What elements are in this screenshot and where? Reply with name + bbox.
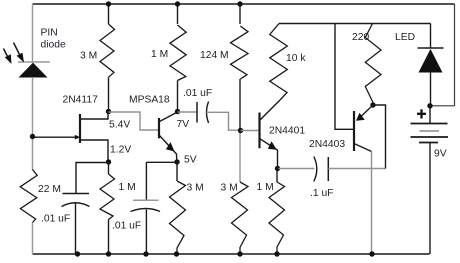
resistor R3 124M top lead <box>239 4 241 24</box>
svg-text:diode: diode <box>41 40 66 51</box>
capacitor C4 left plate curved <box>314 157 317 182</box>
resistor R2 1M top lead <box>177 4 179 24</box>
transistor Q1 gate wire with arrow <box>33 136 76 138</box>
node dot 5.4V <box>106 109 111 114</box>
svg-text:5V: 5V <box>184 155 197 166</box>
node dot ground 3M mid <box>174 251 179 256</box>
transistor Q4 emitter net wire <box>373 105 386 169</box>
resistor R1 3M top lead <box>108 4 110 24</box>
transistor Q4 2N4403 bar <box>353 111 355 151</box>
transistor Q4 collector gray wire to ground <box>371 152 373 254</box>
capacitor C2 right plate curved <box>207 102 209 124</box>
resistor R2 1M bottom lead <box>177 81 179 112</box>
PIN photodiode D1 cathode bar <box>18 61 50 63</box>
battery bottom lead <box>429 143 431 255</box>
wire 5.4V to MPSA18 base <box>109 112 159 130</box>
node dot top 1M <box>175 1 180 6</box>
svg-text:2N4403: 2N4403 <box>309 139 345 150</box>
LED bottom lead <box>430 73 432 106</box>
capacitor C4 .1uF left wire <box>279 168 315 170</box>
transistor Q3 collector <box>260 100 280 120</box>
capacitor C2 right wire <box>206 112 240 130</box>
wire 5V to C3 <box>146 161 177 163</box>
svg-text:3 M: 3 M <box>221 183 238 194</box>
capacitor C1 bottom lead <box>75 204 77 255</box>
capacitor C2 .01uF coupling left wire <box>178 111 197 113</box>
capacitor C1 .01uF top plate <box>63 193 90 195</box>
transistor Q4 emitter with arrow <box>358 105 373 119</box>
LED cathode bar <box>418 47 444 49</box>
node dot top 3M <box>106 1 111 6</box>
svg-text:9V: 9V <box>434 149 447 160</box>
node dot 2N4401 base <box>238 128 243 133</box>
svg-text:PIN: PIN <box>41 28 58 39</box>
svg-text:2N4401: 2N4401 <box>269 126 305 137</box>
LED top lead <box>430 24 432 49</box>
svg-text:3 M: 3 M <box>187 183 204 194</box>
capacitor C1 .01uF bottom plate curved <box>62 203 90 207</box>
svg-text:1 M: 1 M <box>151 49 168 60</box>
svg-text:2N4117: 2N4117 <box>63 95 99 106</box>
svg-text:22 M: 22 M <box>38 184 61 195</box>
transistor Q3 2N4401 bar <box>258 113 260 149</box>
battery B1 top lead <box>429 106 431 124</box>
capacitor C2 left plate <box>196 102 198 123</box>
svg-text:220: 220 <box>352 32 369 43</box>
capacitor C4 right wire <box>328 168 385 170</box>
node dot ground 1M right <box>274 251 279 256</box>
transistor Q2 MPSA18 bar <box>158 118 160 138</box>
node dot ground 2N4403 collector <box>369 251 374 256</box>
svg-text:1.2V: 1.2V <box>110 145 131 156</box>
transistor Q3 base wire <box>241 130 259 132</box>
svg-text:1 M: 1 M <box>257 182 274 193</box>
transistor Q4 collector <box>354 144 372 152</box>
resistor R1 3M bottom lead <box>108 77 110 111</box>
svg-text:.01 uF: .01 uF <box>112 221 141 232</box>
battery plate long 1 <box>411 123 448 125</box>
svg-text:3 M: 3 M <box>80 51 97 62</box>
svg-text:.01 uF: .01 uF <box>183 88 212 99</box>
svg-text:MPSA18: MPSA18 <box>129 95 170 106</box>
battery plus sign <box>417 113 426 115</box>
battery plate short 2 <box>419 142 438 144</box>
light arrow 1 <box>14 43 25 63</box>
node dot 1.2V <box>106 159 111 164</box>
resistor R6 22M zigzag <box>20 170 37 223</box>
wire left rail lower <box>32 223 34 255</box>
node dot ground 3M right <box>237 251 242 256</box>
node dot gate <box>30 134 35 139</box>
wire left rail upper <box>32 4 34 62</box>
capacitor C3 bottom lead <box>145 210 147 255</box>
svg-text:7V: 7V <box>177 119 190 130</box>
node dot top 124M <box>237 1 242 6</box>
node dot ground C3 <box>143 251 148 256</box>
node dot 7V <box>175 109 180 114</box>
wire net A y24 <box>279 23 431 25</box>
light arrow 2 <box>4 49 12 65</box>
resistor R8 3M bottom-middle <box>176 162 178 181</box>
battery plate short gray <box>420 130 440 132</box>
resistor R4 10k zigzag <box>270 24 288 101</box>
wire 1.2V to C1 <box>76 163 109 194</box>
LED triangle <box>419 49 443 73</box>
svg-text:124 M: 124 M <box>200 50 229 61</box>
node dot ground 1M <box>106 251 111 256</box>
node dot 5V <box>174 159 179 164</box>
svg-text:.1 uF: .1 uF <box>310 188 333 199</box>
capacitor C3 .01uF bottom plate curved <box>131 209 161 212</box>
svg-text:.01 uF: .01 uF <box>41 214 70 225</box>
wire left rail middle <box>32 78 34 170</box>
transistor Q1 drain wire <box>80 112 108 120</box>
resistor R1 3M zigzag <box>100 24 115 77</box>
svg-text:1 M: 1 M <box>119 182 136 193</box>
resistor R2 1M zigzag <box>170 25 186 81</box>
PIN photodiode D1 triangle <box>19 63 48 78</box>
svg-text:5.4V: 5.4V <box>109 120 130 131</box>
node dot ground C1 <box>75 251 80 256</box>
svg-text:LED: LED <box>395 32 415 43</box>
capacitor C3 .01uF top plate <box>133 199 159 201</box>
wire tap to 2N4403 base <box>335 24 353 130</box>
transistor Q1 2N4117 bar <box>79 114 81 143</box>
wire battery plus to right border <box>430 105 455 107</box>
transistor Q2 emitter with arrow <box>160 136 177 163</box>
capacitor C4 right plate <box>327 157 329 181</box>
transistor Q2 collector <box>160 112 178 122</box>
resistor R3 124M bottom lead <box>239 79 241 131</box>
resistor R10 1M bottom-right <box>276 169 278 183</box>
resistor R9 3M zigzag <box>232 182 249 254</box>
wire right border <box>454 4 456 106</box>
svg-text:10 k: 10 k <box>286 53 306 64</box>
node dot LED battery <box>427 103 432 108</box>
wire top rail +9V <box>33 3 455 5</box>
battery plate long 2 <box>411 136 449 138</box>
wire bottom ground rail <box>33 253 430 255</box>
node dot 220 bottom <box>370 102 375 107</box>
transistor Q1 source wire <box>80 140 108 162</box>
resistor R3 124M zigzag <box>231 26 249 79</box>
resistor R7 1M bottom-left leads and zigzag <box>108 162 110 174</box>
resistor R9 3M bottom-right gray top lead <box>239 131 241 183</box>
resistor R5 220 zigzag <box>365 24 381 103</box>
node dot 2N4401 emitter <box>275 166 280 171</box>
transistor Q3 emitter with arrow <box>260 139 278 169</box>
